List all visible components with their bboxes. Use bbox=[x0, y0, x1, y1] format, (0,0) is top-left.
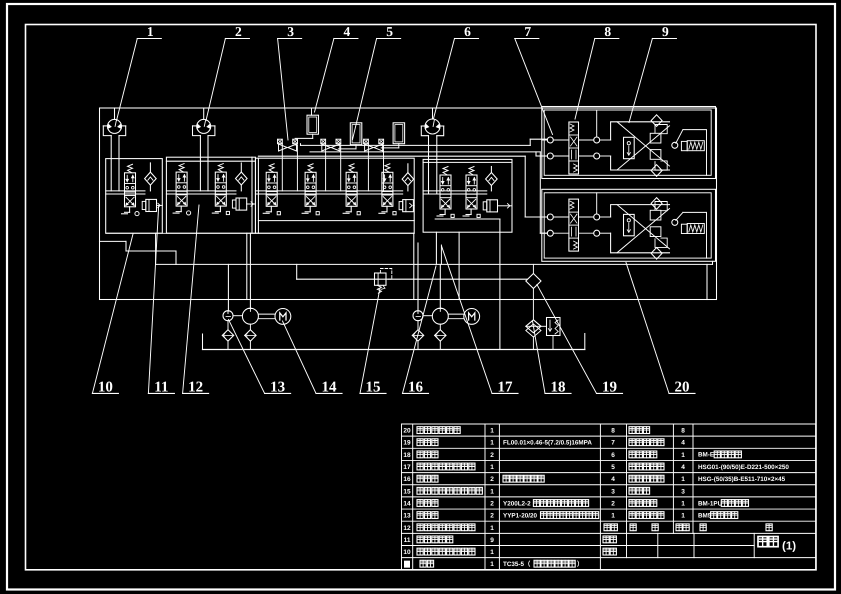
directional valve section C2 bbox=[308, 164, 313, 173]
solenoid valve group SV1 with accumulator bbox=[278, 139, 283, 144]
motor block M1 motor shuttle frame bbox=[611, 122, 670, 170]
svg-text:19: 19 bbox=[602, 379, 617, 395]
directional valve section B1 bbox=[179, 164, 184, 173]
svg-text:11: 11 bbox=[404, 537, 411, 544]
motor block M1 port R2 bbox=[594, 153, 600, 159]
hydraulic system enclosure box bbox=[100, 108, 717, 300]
tank line (reservoir) bbox=[203, 349, 585, 351]
motor block M1 crossover lines (wire) bbox=[617, 122, 670, 166]
svg-text:2: 2 bbox=[490, 513, 494, 520]
callout label 3 (leader) bbox=[278, 38, 302, 40]
svg-text:9: 9 bbox=[662, 24, 669, 39]
svg-text:4: 4 bbox=[611, 476, 615, 483]
valve group box A bbox=[106, 159, 163, 234]
motor block M1 brake cylinder bbox=[676, 130, 683, 144]
svg-text:16: 16 bbox=[408, 379, 424, 395]
svg-text:20: 20 bbox=[675, 379, 690, 395]
svg-text:1: 1 bbox=[490, 488, 494, 495]
callout label 17 (leader) bbox=[492, 392, 518, 394]
motor block M2 pilot square upper bbox=[650, 210, 661, 220]
svg-text:1: 1 bbox=[490, 549, 494, 556]
valve group box C inner lines bbox=[257, 158, 259, 233]
callout label 19 (leader) bbox=[597, 392, 623, 394]
pump group 2 main pump bbox=[432, 308, 448, 324]
svg-text:8: 8 bbox=[611, 428, 615, 435]
svg-text:19: 19 bbox=[403, 440, 411, 447]
pilot bus middle (wire) bbox=[310, 151, 540, 153]
svg-text:1: 1 bbox=[147, 24, 154, 39]
svg-text:1: 1 bbox=[490, 428, 494, 435]
svg-text:8: 8 bbox=[604, 24, 611, 39]
directional valve section D2 bbox=[469, 167, 474, 176]
return check valve CV5 bbox=[526, 274, 541, 289]
svg-text:2: 2 bbox=[235, 24, 242, 39]
svg-text:HSG-(50/35)B-E511-710×2×45: HSG-(50/35)B-E511-710×2×45 bbox=[698, 476, 786, 483]
valve group box D bbox=[423, 159, 512, 232]
motor return drop (wire) bbox=[706, 264, 708, 299]
svg-text:6: 6 bbox=[464, 24, 471, 39]
motor block M2 crossover lines (wire) bbox=[617, 205, 670, 249]
callout label 20 (leader) bbox=[669, 392, 695, 394]
motor block M2 check diamond bottom bbox=[651, 248, 662, 260]
pump P2 pipes (wire) bbox=[199, 136, 201, 191]
motor block M1 brake control valve bbox=[569, 122, 579, 174]
box B port lines (wire) bbox=[166, 190, 236, 192]
motor block M1 pilot square upper bbox=[650, 133, 661, 143]
callout label 8 (leader) bbox=[595, 38, 619, 40]
callout label 13 (leader) bbox=[265, 392, 291, 394]
callout label 15 (leader) bbox=[360, 392, 386, 394]
return bus main (wire) bbox=[156, 263, 713, 265]
svg-text:5: 5 bbox=[611, 464, 615, 471]
trunk wire to motor block2 port2 (wire) bbox=[539, 152, 541, 233]
svg-text:4: 4 bbox=[344, 24, 351, 39]
callout label 10 (leader) bbox=[92, 392, 118, 394]
parts table row checked bbox=[603, 548, 609, 555]
motor block M1 port R3 bbox=[672, 142, 678, 148]
svg-text:9: 9 bbox=[490, 537, 494, 544]
motor block M2 port L2 bbox=[547, 230, 553, 236]
motor block M2 outer frame bbox=[542, 189, 716, 261]
motor block M1 pilot loops (wire) bbox=[655, 125, 667, 134]
svg-text:12: 12 bbox=[188, 379, 203, 395]
svg-text:BM-1PU: BM-1PU bbox=[698, 500, 723, 507]
valve group box D inner lines bbox=[423, 161, 512, 163]
svg-text:1: 1 bbox=[681, 452, 685, 459]
pilot bus lower-mid (wire) bbox=[297, 278, 527, 280]
suction drop to pump group 1 (wire) bbox=[227, 264, 229, 311]
svg-text:7: 7 bbox=[611, 440, 615, 447]
svg-text:16: 16 bbox=[403, 476, 411, 483]
motor block M2 check diamond top bbox=[651, 198, 662, 210]
motor block M1 port R1 bbox=[594, 137, 600, 143]
motor block M1 check cartridge bbox=[624, 137, 635, 158]
valve group box B inner border bbox=[166, 160, 255, 162]
svg-text:1: 1 bbox=[611, 513, 615, 520]
svg-text:3: 3 bbox=[681, 488, 685, 495]
svg-text:17: 17 bbox=[498, 379, 514, 395]
svg-text:2: 2 bbox=[490, 476, 494, 483]
solenoid valve group SV2 with accumulator bbox=[321, 139, 326, 144]
callout label 4 (leader) bbox=[334, 38, 358, 40]
callout label 2 (leader) bbox=[225, 38, 249, 40]
svg-text:）: ） bbox=[577, 560, 583, 568]
callout label 6 (leader) bbox=[455, 38, 479, 40]
svg-text:10: 10 bbox=[403, 549, 411, 556]
svg-text:HSG01-(90/50)E-D221-500×250: HSG01-(90/50)E-D221-500×250 bbox=[698, 464, 789, 471]
relief valve box A bbox=[146, 199, 157, 211]
trunk wire to motor block2 port1 (wire) bbox=[524, 156, 526, 217]
solenoid valve group SV3 with accumulator bbox=[364, 139, 369, 144]
svg-text:13: 13 bbox=[403, 513, 411, 520]
pump P1 suction pipe (wire) bbox=[110, 136, 112, 191]
return bus segment left (wire) bbox=[100, 240, 127, 242]
motor block M2 pilot square lower bbox=[650, 227, 661, 237]
svg-text:5: 5 bbox=[386, 24, 393, 39]
svg-text:YYP1-20/20: YYP1-20/20 bbox=[503, 512, 537, 519]
callout label 12 (leader) bbox=[183, 392, 209, 394]
svg-text:13: 13 bbox=[270, 379, 285, 395]
callout label 18 (leader) bbox=[545, 392, 571, 394]
svg-text:18: 18 bbox=[403, 452, 411, 459]
pump P1 (oil pump unit 1) bbox=[108, 119, 122, 133]
pump2 feed riser (wire) bbox=[440, 245, 442, 264]
motor block M2 brake cylinder bbox=[676, 212, 683, 220]
pilot bus lower (wire) bbox=[258, 155, 525, 157]
pump P3 pipes (wire) bbox=[428, 136, 430, 194]
box bottoms bus (wire) bbox=[106, 232, 414, 234]
motor block M1 port wires (wire) bbox=[542, 139, 548, 141]
motor block M2 port R2 bbox=[594, 230, 600, 236]
pump group 2 pump link (wire) bbox=[423, 315, 432, 317]
pump P3 stem to bus (wire) bbox=[432, 108, 434, 119]
svg-text:1: 1 bbox=[490, 440, 494, 447]
pump P2 stem to bus (wire) bbox=[203, 108, 205, 119]
parts table grid bbox=[402, 423, 816, 425]
svg-text:4: 4 bbox=[681, 464, 685, 471]
svg-text:2: 2 bbox=[611, 500, 615, 507]
pilot bus upper (wire) bbox=[301, 144, 531, 146]
svg-text:14: 14 bbox=[322, 379, 338, 395]
directional valve section D1 bbox=[443, 167, 448, 176]
pump group 2 suction filter 2 bbox=[435, 330, 446, 341]
motor block M1 check diamond top bbox=[651, 115, 662, 127]
pump group 1 drive shaft (wire) bbox=[258, 313, 275, 315]
svg-text:1: 1 bbox=[681, 500, 685, 507]
parts table left row 9 chassis bbox=[404, 561, 410, 568]
svg-text:Y200L2-2: Y200L2-2 bbox=[503, 500, 531, 507]
directional valve section A1 bbox=[128, 164, 133, 173]
motor block M1 check diamond bottom bbox=[651, 165, 662, 177]
svg-text:12: 12 bbox=[403, 525, 411, 532]
svg-text:18: 18 bbox=[551, 379, 566, 395]
pump group 2 drive shaft (wire) bbox=[448, 313, 464, 315]
svg-text:BM-E: BM-E bbox=[698, 452, 714, 459]
svg-text:FL00.01×0.46-5(7.2/0.5)16MPA: FL00.01×0.46-5(7.2/0.5)16MPA bbox=[503, 440, 592, 447]
trunk wire to motor block1 port2 (wire) bbox=[535, 152, 537, 156]
pump group 2 suction filter 1 bbox=[412, 330, 423, 341]
check valve box A bbox=[149, 163, 151, 172]
pump group 1 main pump bbox=[242, 308, 258, 324]
motor block M2 port wires (wire) bbox=[542, 216, 548, 218]
relief valve box B bbox=[236, 198, 247, 210]
pilot relief valve RV1 bbox=[375, 273, 387, 285]
motor block M1 pilot square lower bbox=[650, 150, 661, 160]
motor block M1 outer frame bbox=[542, 107, 716, 179]
relief valve box C bbox=[403, 200, 414, 212]
callout label 14 (leader) bbox=[316, 392, 342, 394]
pump P1 stem to bus (wire) bbox=[114, 108, 116, 119]
callout label 9 (leader) bbox=[652, 38, 676, 40]
pump P3 (oil pump unit 3) bbox=[425, 119, 440, 134]
svg-text:(1): (1) bbox=[782, 541, 796, 553]
callout label 7 (leader) bbox=[515, 38, 539, 40]
pump group 2 charge pump bbox=[413, 311, 423, 321]
motor block M2 port L1 bbox=[547, 214, 553, 220]
svg-text:11: 11 bbox=[154, 379, 168, 395]
pump group 1 charge pump bbox=[223, 311, 233, 321]
box A port lines (wire) bbox=[106, 190, 145, 192]
pump group 1 electric motor bbox=[275, 309, 291, 325]
parts table header row bbox=[604, 524, 610, 531]
motor block M2 inner frame bbox=[544, 193, 711, 258]
svg-text:8: 8 bbox=[681, 428, 685, 435]
motor block M2 check cartridge bbox=[624, 214, 635, 235]
valve group box B bbox=[166, 157, 255, 233]
directional valve section B2 bbox=[218, 164, 223, 173]
relief valve box D bbox=[487, 200, 498, 212]
box C port lines (wire) bbox=[255, 190, 402, 192]
svg-text:17: 17 bbox=[403, 464, 411, 471]
svg-text:1: 1 bbox=[490, 561, 494, 568]
svg-text:1: 1 bbox=[490, 525, 494, 532]
callout label 1 (leader) bbox=[137, 38, 161, 40]
parts table drawing number bbox=[758, 537, 778, 547]
svg-text:2: 2 bbox=[490, 500, 494, 507]
pump group 1 pump link (wire) bbox=[233, 315, 242, 317]
check valve box D bbox=[490, 167, 492, 173]
motor block M2 pilot loops (wire) bbox=[655, 202, 667, 211]
suction drop to pump group 2 (wire) bbox=[417, 243, 419, 311]
svg-text:20: 20 bbox=[403, 428, 411, 435]
svg-text:7: 7 bbox=[524, 24, 531, 39]
pump group 1 suction filter 1 bbox=[222, 330, 233, 341]
svg-text:TC35-5（: TC35-5（ bbox=[503, 560, 531, 568]
svg-text:14: 14 bbox=[403, 500, 411, 507]
box D drain risers (wire) bbox=[435, 232, 437, 264]
box D port lines (wire) bbox=[423, 190, 487, 192]
trunk wire to motor block1 port1 (wire) bbox=[529, 139, 531, 145]
svg-text:3: 3 bbox=[611, 488, 615, 495]
callout label 11 (leader) bbox=[148, 392, 174, 394]
motor block M2 motor shuttle frame bbox=[611, 205, 670, 253]
svg-text:2: 2 bbox=[490, 452, 494, 459]
return relief valve RV2 bbox=[547, 318, 561, 336]
pump P2 (oil pump unit 2) bbox=[197, 119, 211, 133]
motor block M1 inner frame bbox=[544, 110, 711, 175]
svg-text:15: 15 bbox=[366, 379, 381, 395]
svg-text:15: 15 bbox=[403, 488, 411, 495]
callout label 16 (leader) bbox=[403, 392, 429, 394]
return filter F5 bbox=[526, 320, 541, 333]
svg-text:3: 3 bbox=[287, 24, 294, 39]
motor block M1 port L2 bbox=[547, 153, 553, 159]
motor block M1 port L1 bbox=[547, 137, 553, 143]
directional valve section C1 bbox=[269, 164, 274, 173]
svg-text:6: 6 bbox=[611, 452, 615, 459]
motor block M2 brake control valve bbox=[569, 199, 579, 251]
svg-text:1: 1 bbox=[681, 513, 685, 520]
directional valve section C4 bbox=[385, 164, 390, 173]
svg-text:1: 1 bbox=[490, 464, 494, 471]
directional valve section C3 bbox=[349, 164, 354, 173]
parts table row drafted bbox=[603, 536, 609, 543]
check valve box C bbox=[407, 164, 409, 173]
pump group 1 suction filter 2 bbox=[245, 330, 256, 341]
svg-text:BM5: BM5 bbox=[698, 512, 712, 519]
valve group box C bbox=[255, 158, 414, 233]
box B drain riser (wire) bbox=[246, 233, 248, 299]
pump group 2 electric motor bbox=[464, 309, 480, 325]
motor block M2 port R1 bbox=[594, 214, 600, 220]
pump1 discharge riser (wire) bbox=[249, 233, 251, 308]
callout label 5 (leader) bbox=[377, 38, 401, 40]
box C drain riser (wire) bbox=[413, 233, 415, 299]
svg-text:1: 1 bbox=[681, 476, 685, 483]
check valve box B bbox=[240, 163, 242, 172]
svg-text:4: 4 bbox=[681, 440, 685, 447]
motor block M2 port R3 bbox=[672, 219, 678, 225]
svg-text:10: 10 bbox=[98, 379, 113, 395]
